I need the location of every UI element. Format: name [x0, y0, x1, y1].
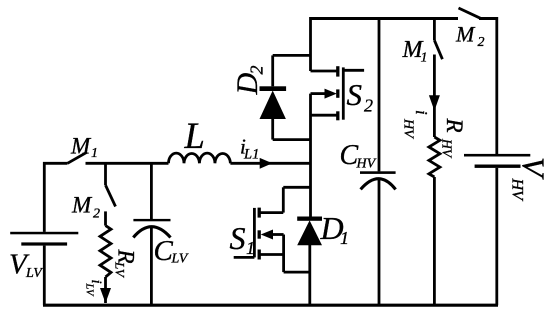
svg-text:D: D [231, 73, 264, 96]
svg-text:HV: HV [401, 118, 416, 139]
svg-text:M: M [455, 21, 476, 46]
svg-text:1: 1 [246, 238, 255, 258]
svg-text:R: R [442, 118, 467, 133]
svg-text:LV: LV [25, 266, 43, 281]
svg-text:LV: LV [113, 261, 128, 279]
svg-text:HV: HV [509, 178, 526, 203]
svg-text:2: 2 [364, 96, 373, 116]
svg-text:HV: HV [356, 157, 377, 172]
svg-text:LV: LV [84, 283, 95, 297]
svg-text:LV: LV [171, 252, 189, 267]
svg-text:L1: L1 [243, 147, 259, 163]
svg-text:S: S [347, 77, 363, 112]
svg-text:C: C [154, 235, 174, 267]
svg-text:2: 2 [247, 66, 267, 75]
svg-text:L: L [184, 115, 205, 156]
svg-text:M: M [70, 134, 92, 159]
svg-text:S: S [230, 220, 246, 256]
svg-text:1: 1 [91, 146, 98, 161]
svg-text:2: 2 [93, 207, 100, 222]
svg-text:1: 1 [421, 51, 428, 66]
svg-text:M: M [71, 193, 93, 218]
svg-text:HV: HV [440, 138, 455, 159]
svg-text:1: 1 [340, 228, 349, 248]
svg-text:2: 2 [478, 35, 485, 50]
svg-text:i: i [412, 110, 431, 115]
